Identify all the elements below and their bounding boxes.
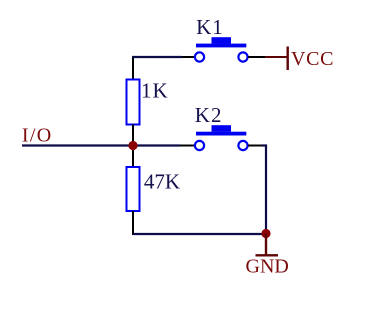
svg-text:47K: 47K: [144, 169, 180, 193]
wire from resistor 1K to node I/O and resistor 47K: [132, 125, 134, 168]
resistor 1K: [127, 80, 140, 125]
wire bottom horizontal to GND node: [133, 233, 266, 235]
svg-text:1K: 1K: [141, 78, 169, 102]
junction node I/O: [128, 141, 137, 150]
switch K1: [195, 37, 248, 61]
svg-text:VCC: VCC: [291, 48, 334, 70]
junction node at GND: [261, 229, 270, 238]
svg-text:K2: K2: [195, 103, 223, 127]
svg-text:K1: K1: [196, 15, 224, 39]
wire from resistor 47K down: [132, 211, 134, 235]
pin of resistor 1K up to wire corner: [132, 56, 134, 80]
ground GND: [246, 234, 289, 278]
wire from corner to switch K1 pin 1: [132, 56, 182, 58]
wire from switch K2 pin 2 down to GND node: [248, 146, 266, 235]
svg-text:GND: GND: [246, 256, 289, 278]
resistor 47K: [127, 167, 140, 211]
svg-text:I/O: I/O: [22, 125, 53, 147]
power port VCC: [265, 47, 334, 71]
switch K2: [195, 125, 248, 150]
wire from switch K1 pin 2 to VCC: [248, 56, 265, 58]
wire I/O horizontal: [22, 144, 195, 146]
pin of switch K1: [182, 56, 195, 58]
